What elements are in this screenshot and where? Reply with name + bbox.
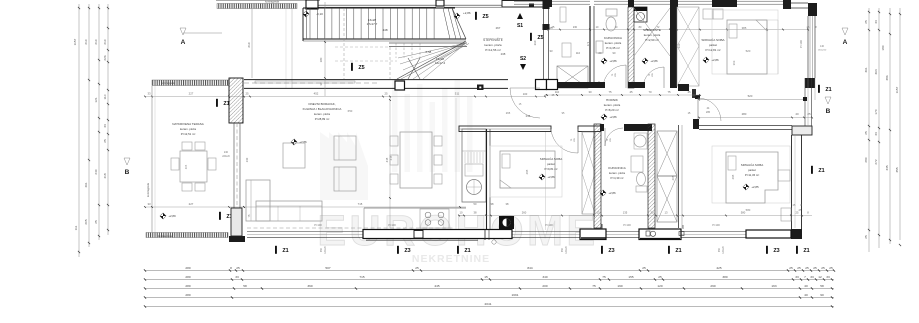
svg-text:25: 25 [864,235,868,239]
svg-text:360: 360 [307,284,312,288]
svg-text:Z1: Z1 [818,168,824,174]
svg-text:+2,86: +2,86 [711,58,719,62]
svg-text:15: 15 [484,275,488,279]
svg-text:A: A [843,39,848,46]
svg-text:25: 25 [821,266,825,270]
bedroom3 wardrobe X [582,132,595,214]
svg-text:75: 75 [592,284,596,288]
svg-text:+2,85: +2,85 [751,185,759,189]
bath1 left wall [589,6,591,88]
svg-text:Z1: Z1 [282,248,288,254]
svg-text:33: 33 [550,49,553,53]
svg-text:350: 350 [718,247,721,252]
svg-text:75: 75 [602,275,606,279]
bedroom2 bed [712,146,790,203]
svg-text:715: 715 [358,202,363,206]
svg-text:keram. ploča: keram. ploča [605,41,622,45]
terrace/living glass wall [233,123,235,208]
svg-text:111: 111 [74,225,78,230]
glass wall living north [244,79,508,81]
terrace bottom dim row [145,206,244,208]
bath1 door arc [603,65,626,88]
svg-text:33: 33 [795,275,799,279]
kitchen tall counter [462,129,486,202]
svg-text:520: 520 [748,94,753,98]
svg-text:NEKRETNINE: NEKRETNINE [412,253,490,265]
svg-text:280: 280 [185,266,190,270]
svg-text:290: 290 [710,284,715,288]
svg-text:33: 33 [235,275,239,279]
bath1/spremiste wall [628,7,634,88]
Z5 labels [475,12,477,20]
svg-text:385: 385 [742,26,747,30]
svg-text:33: 33 [103,124,107,128]
circle below wall [492,240,496,244]
svg-text:B: B [125,169,130,176]
svg-text:650: 650 [348,109,353,113]
spremiste [634,7,647,22]
svg-text:45: 45 [687,90,691,94]
lower dim row y215 [458,211,812,217]
svg-text:25: 25 [813,266,817,270]
svg-text:25: 25 [807,112,811,116]
svg-text:205: 205 [671,175,675,180]
svg-text:20: 20 [651,211,654,215]
svg-text:25: 25 [415,266,419,270]
svg-text:P=100: P=100 [623,223,631,227]
svg-text:25: 25 [797,266,801,270]
svg-text:240: 240 [224,151,229,154]
svg-text:418: 418 [103,173,107,178]
S1 [517,13,523,19]
svg-text:SPAVAĆA SOBA: SPAVAĆA SOBA [741,162,764,167]
svg-text:58: 58 [820,284,824,288]
top exterior wall [306,4,436,6]
svg-text:380: 380 [722,275,727,279]
staircase [286,0,471,88]
svg-text:Z1: Z1 [675,248,681,254]
svg-text:P=11,36 m²: P=11,36 m² [745,173,759,177]
svg-text:25: 25 [658,275,662,279]
svg-text:P=9,81 m²: P=9,81 m² [545,167,558,171]
columns on band [395,81,405,90]
svg-text:38: 38 [474,211,477,215]
svg-text:280: 280 [864,157,868,162]
svg-text:361: 361 [864,67,868,72]
svg-text:Z5: Z5 [537,35,543,41]
svg-text:25: 25 [236,266,240,270]
svg-text:25: 25 [864,20,868,24]
svg-text:180: 180 [319,57,323,62]
terrace boundary [151,86,153,232]
svg-text:40: 40 [795,112,799,116]
bathroom2 door arc [605,128,623,146]
corner column terrace [229,78,243,123]
svg-text:363: 363 [874,69,878,74]
svg-text:233: 233 [677,43,681,48]
svg-text:+2,86: +2,86 [547,175,555,179]
svg-text:295: 295 [525,169,529,174]
svg-text:210: 210 [247,42,251,47]
svg-text:S1: S1 [517,23,523,29]
svg-text:10: 10 [460,211,463,215]
svg-text:keram. ploča: keram. ploča [484,43,502,47]
svg-text:16x17.4: 16x17.4 [435,61,446,65]
svg-text:580: 580 [741,211,746,215]
dim line x390 vertical [389,96,391,228]
niche lines [804,78,806,126]
bathroom1 fixtures [606,17,616,31]
svg-text:kontragreda: kontragreda [161,81,175,85]
svg-text:keram. ploča: keram. ploča [644,33,661,37]
bottom wall: windows & segments [247,216,791,240]
svg-text:25: 25 [864,131,868,135]
svg-text:NATKRIVENA TERASA: NATKRIVENA TERASA [172,122,204,126]
svg-text:+2,86: +2,86 [650,59,658,63]
svg-text:220x20: 220x20 [222,156,230,158]
svg-text:Z3: Z3 [773,248,779,254]
bedroom1 wardrobe [703,9,713,19]
svg-text:280: 280 [742,112,747,116]
svg-text:+2,86: +2,86 [299,140,307,144]
dim line x325 [324,2,326,96]
section marker A left [180,28,186,35]
svg-text:S2: S2 [520,56,526,62]
wall stair/closet [543,0,550,9]
svg-text:+2,86: +2,86 [609,115,617,119]
bedroom3 bed [490,146,562,197]
svg-text:A: A [181,39,186,46]
svg-text:210: 210 [94,39,98,44]
sofa [246,180,322,221]
svg-text:P=2,90 m²: P=2,90 m² [645,38,658,42]
svg-text:P=12,56 m²: P=12,56 m² [485,48,501,52]
svg-text:1691: 1691 [512,293,519,297]
svg-text:30: 30 [588,90,592,94]
svg-text:33: 33 [826,275,830,279]
svg-text:KUHINJA I BLAGOVAONICA: KUHINJA I BLAGOVAONICA [303,107,342,111]
terrace table [171,142,216,191]
svg-text:405: 405 [184,164,188,169]
svg-text:90: 90 [820,293,824,297]
svg-text:13: 13 [597,211,600,215]
spremiste/bedroom1 wall [670,7,677,88]
Z1 terrace labels [216,99,218,107]
bedroom2 door arc [698,98,721,121]
svg-text:180: 180 [881,45,885,50]
svg-text:DNEVNI BORAVAK,: DNEVNI BORAVAK, [308,102,335,106]
svg-text:205: 205 [706,111,711,114]
svg-text:386: 386 [885,75,889,80]
svg-text:keram. ploča: keram. ploča [609,171,625,175]
svg-text:KUPAONICA: KUPAONICA [604,36,623,40]
svg-text:350: 350 [320,247,323,252]
hall right walls [693,119,699,129]
svg-text:350: 350 [561,247,564,252]
svg-text:parket: parket [748,168,756,172]
svg-text:1157: 1157 [895,86,899,93]
top kontragreda strip [216,0,320,2]
svg-text:33: 33 [874,132,878,136]
svg-text:33: 33 [874,20,878,24]
hodnik dim row [547,94,700,96]
right exterior wall upper [807,16,809,78]
svg-text:445: 445 [434,284,439,288]
svg-text:Z3: Z3 [608,248,614,254]
svg-text:kontragreda: kontragreda [158,234,172,238]
svg-text:110: 110 [103,94,107,99]
svg-text:kontragreda: kontragreda [146,183,150,197]
svg-text:25: 25 [245,92,249,96]
svg-text:507: 507 [325,266,330,270]
svg-text:355: 355 [895,167,899,172]
svg-text:340: 340 [542,275,547,279]
svg-text:452: 452 [314,92,319,96]
svg-text:17x17.7: 17x17.7 [367,22,378,26]
svg-text:parket: parket [709,43,717,47]
bedroom2 right wall [791,135,793,239]
watermark logo [320,80,473,200]
svg-text:267: 267 [496,26,501,30]
svg-text:P=8,20 m²: P=8,20 m² [605,108,618,112]
svg-text:461: 461 [84,182,88,187]
svg-text:75: 75 [608,90,612,94]
svg-text:295: 295 [731,174,735,179]
shaft X boxes [657,131,677,222]
S2 [520,64,526,70]
stair-living door arc [510,88,540,118]
kitchen/bedroom3 partition [486,129,488,232]
svg-text:33: 33 [810,275,814,279]
svg-text:170: 170 [874,109,878,114]
svg-text:keram. ploča: keram. ploča [180,127,196,131]
svg-text:B: B [826,108,831,115]
left dimension chains [73,4,109,257]
svg-text:25: 25 [94,220,98,224]
svg-text:12: 12 [818,275,822,279]
section marker B left [124,158,130,165]
svg-text:keram. ploča: keram. ploča [314,112,330,116]
svg-text:+2,89: +2,89 [168,214,176,218]
svg-text:+2,86: +2,86 [463,11,471,15]
bedroom3 door arc [551,129,578,153]
svg-text:210: 210 [84,39,88,44]
svg-text:205: 205 [84,219,88,224]
svg-text:520: 520 [746,49,751,53]
svg-text:75: 75 [667,90,671,94]
svg-text:SPAVAĆA SOBA: SPAVAĆA SOBA [701,37,725,42]
bedroom1 bottom wall [678,84,689,91]
svg-text:+2,86: +2,86 [609,59,617,63]
svg-text:171: 171 [586,41,590,46]
bedroom3 top wall [459,126,551,132]
svg-text:Z3: Z3 [404,248,410,254]
svg-text:272: 272 [874,159,878,164]
living dim row [145,96,545,98]
svg-text:245: 245 [526,114,531,118]
bottom dimension chains [144,266,835,308]
svg-text:415: 415 [389,155,393,160]
svg-text:280: 280 [185,293,190,297]
svg-text:25: 25 [789,266,793,270]
svg-text:100: 100 [523,92,528,96]
svg-text:parket: parket [547,162,555,166]
svg-text:844: 844 [527,266,532,270]
lower corner column [231,208,242,236]
svg-text:8: 8 [230,266,232,270]
svg-text:2041: 2041 [485,302,492,306]
right dimension chains [864,8,901,252]
svg-text:120x20: 120x20 [723,246,725,254]
svg-text:45: 45 [629,90,633,94]
svg-text:425: 425 [716,266,721,270]
svg-text:230: 230 [573,26,578,29]
svg-text:110: 110 [576,51,581,55]
svg-text:58: 58 [243,284,247,288]
svg-text:226: 226 [103,55,107,60]
svg-text:1157: 1157 [73,38,77,45]
svg-text:210: 210 [103,39,107,44]
svg-text:120x20: 120x20 [566,246,568,254]
kitchen lower counter [364,208,466,229]
svg-text:SPREMIŠTE: SPREMIŠTE [643,27,661,32]
svg-text:25: 25 [642,266,646,270]
Z1 + B right [818,85,820,93]
svg-text:25: 25 [384,92,388,96]
svg-text:Z5: Z5 [482,14,488,20]
svg-text:265: 265 [506,111,511,115]
bedroom1 bed [712,10,778,74]
svg-text:280: 280 [185,275,190,279]
closet under stair [560,7,566,22]
bedroom1 shaft [677,7,699,86]
svg-text:Z1: Z1 [803,248,809,254]
svg-text:P=100: P=100 [388,223,396,227]
svg-text:25: 25 [103,139,107,143]
coffee table [283,143,305,168]
svg-text:Z1: Z1 [825,87,831,93]
svg-text:33: 33 [147,202,151,206]
svg-text:P=100: P=100 [712,223,720,227]
dim line x252 [251,9,253,78]
svg-text:240: 240 [94,169,98,174]
svg-text:7: 7 [804,275,806,279]
svg-text:Z5: Z5 [358,65,364,71]
svg-text:STEPENIŠTE: STEPENIŠTE [483,37,503,42]
svg-text:227: 227 [189,92,194,96]
svg-text:40: 40 [804,284,808,288]
svg-text:-0,10: -0,10 [316,12,323,16]
bedroom2 left edge [678,125,680,228]
svg-text:260: 260 [522,211,527,215]
svg-text:121: 121 [94,97,98,102]
bath2 right wall [648,124,655,228]
bathroom2 fixtures [634,135,646,147]
dining table [390,132,442,188]
svg-text:33: 33 [147,92,151,96]
svg-text:25: 25 [796,211,799,215]
section marker A right [842,28,848,35]
svg-text:KUPAONICA: KUPAONICA [608,166,625,170]
svg-text:280: 280 [185,284,190,288]
svg-text:25: 25 [805,266,809,270]
svg-text:227: 227 [189,202,194,206]
svg-text:SPAVAĆA SOBA: SPAVAĆA SOBA [540,156,563,161]
svg-text:HODNIK: HODNIK [606,98,619,102]
svg-text:163: 163 [771,284,776,288]
svg-text:120: 120 [657,284,662,288]
svg-text:120x20: 120x20 [325,246,327,254]
svg-text:+2,86: +2,86 [608,191,616,195]
svg-text:70: 70 [648,90,652,94]
svg-text:715: 715 [359,275,364,279]
svg-text:130x220: 130x220 [818,50,827,52]
svg-text:363: 363 [732,60,736,65]
svg-text:P=4,35 m²: P=4,35 m² [606,46,619,50]
svg-text:448: 448 [382,28,387,32]
svg-text:40: 40 [804,293,808,297]
svg-text:13: 13 [665,211,668,215]
svg-text:240: 240 [245,157,249,162]
bottom Z labels [275,246,277,254]
svg-text:135: 135 [623,211,628,215]
terrace bottom strip [146,233,228,238]
svg-text:-0,58: -0,58 [425,50,432,54]
svg-text:Z1: Z1 [223,101,229,107]
bedroom3/bath2 wall [594,124,601,228]
svg-text:238: 238 [501,52,506,56]
svg-text:P=12,81 m²: P=12,81 m² [705,48,720,52]
svg-text:140: 140 [820,45,825,48]
svg-text:335: 335 [885,165,889,170]
upper rooms dim row y29 [547,29,808,31]
svg-text:keram. ploča: keram. ploča [604,103,621,107]
svg-text:190: 190 [617,284,622,288]
svg-text:110: 110 [555,90,560,94]
svg-text:P=28,89 m²: P=28,89 m² [315,117,330,121]
living bottom interior dim [244,206,466,208]
svg-text:580: 580 [746,208,751,212]
svg-text:P=100: P=100 [314,223,322,227]
armchairs [334,136,356,160]
svg-text:P=100: P=100 [799,40,803,48]
svg-text:511: 511 [455,92,460,96]
corridor top wall [558,82,605,88]
svg-text:P=100: P=100 [545,223,553,227]
svg-text:Z1: Z1 [464,248,470,254]
svg-text:200: 200 [542,284,547,288]
svg-text:25: 25 [829,266,833,270]
bathroom2 top wall [600,124,604,131]
svg-text:kontragreda: kontragreda [265,0,279,4]
living top wall band [152,80,229,86]
svg-text:155: 155 [628,275,633,279]
svg-text:P=12,51 m²: P=12,51 m² [181,132,196,136]
svg-text:P=4,39 m²: P=4,39 m² [611,176,624,180]
